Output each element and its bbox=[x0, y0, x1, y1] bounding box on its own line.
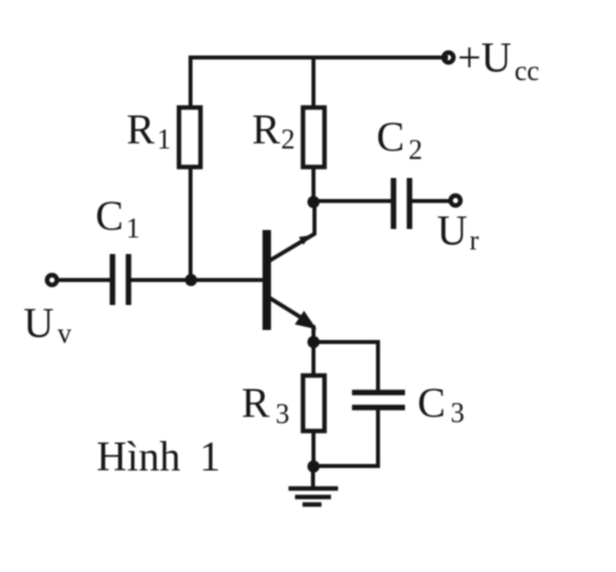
svg-text:1: 1 bbox=[157, 125, 171, 156]
svg-text:R: R bbox=[127, 108, 155, 154]
svg-text:v: v bbox=[58, 319, 72, 350]
svg-text:2: 2 bbox=[281, 125, 295, 156]
svg-text:C: C bbox=[418, 381, 446, 427]
svg-text:C: C bbox=[377, 115, 405, 161]
svg-text:3: 3 bbox=[276, 399, 290, 430]
svg-text:U: U bbox=[437, 209, 467, 255]
svg-text:2: 2 bbox=[409, 135, 423, 166]
svg-text:Hình: Hình bbox=[97, 435, 181, 481]
svg-text:R: R bbox=[252, 108, 280, 154]
svg-text:3: 3 bbox=[451, 398, 465, 429]
svg-text:1: 1 bbox=[126, 214, 140, 245]
svg-text:+U: +U bbox=[458, 36, 512, 82]
svg-text:U: U bbox=[24, 301, 54, 347]
svg-text:r: r bbox=[470, 226, 480, 257]
svg-text:C: C bbox=[96, 194, 124, 240]
svg-text:cc: cc bbox=[515, 56, 540, 87]
svg-text:R: R bbox=[242, 381, 270, 427]
svg-text:1: 1 bbox=[200, 435, 221, 481]
